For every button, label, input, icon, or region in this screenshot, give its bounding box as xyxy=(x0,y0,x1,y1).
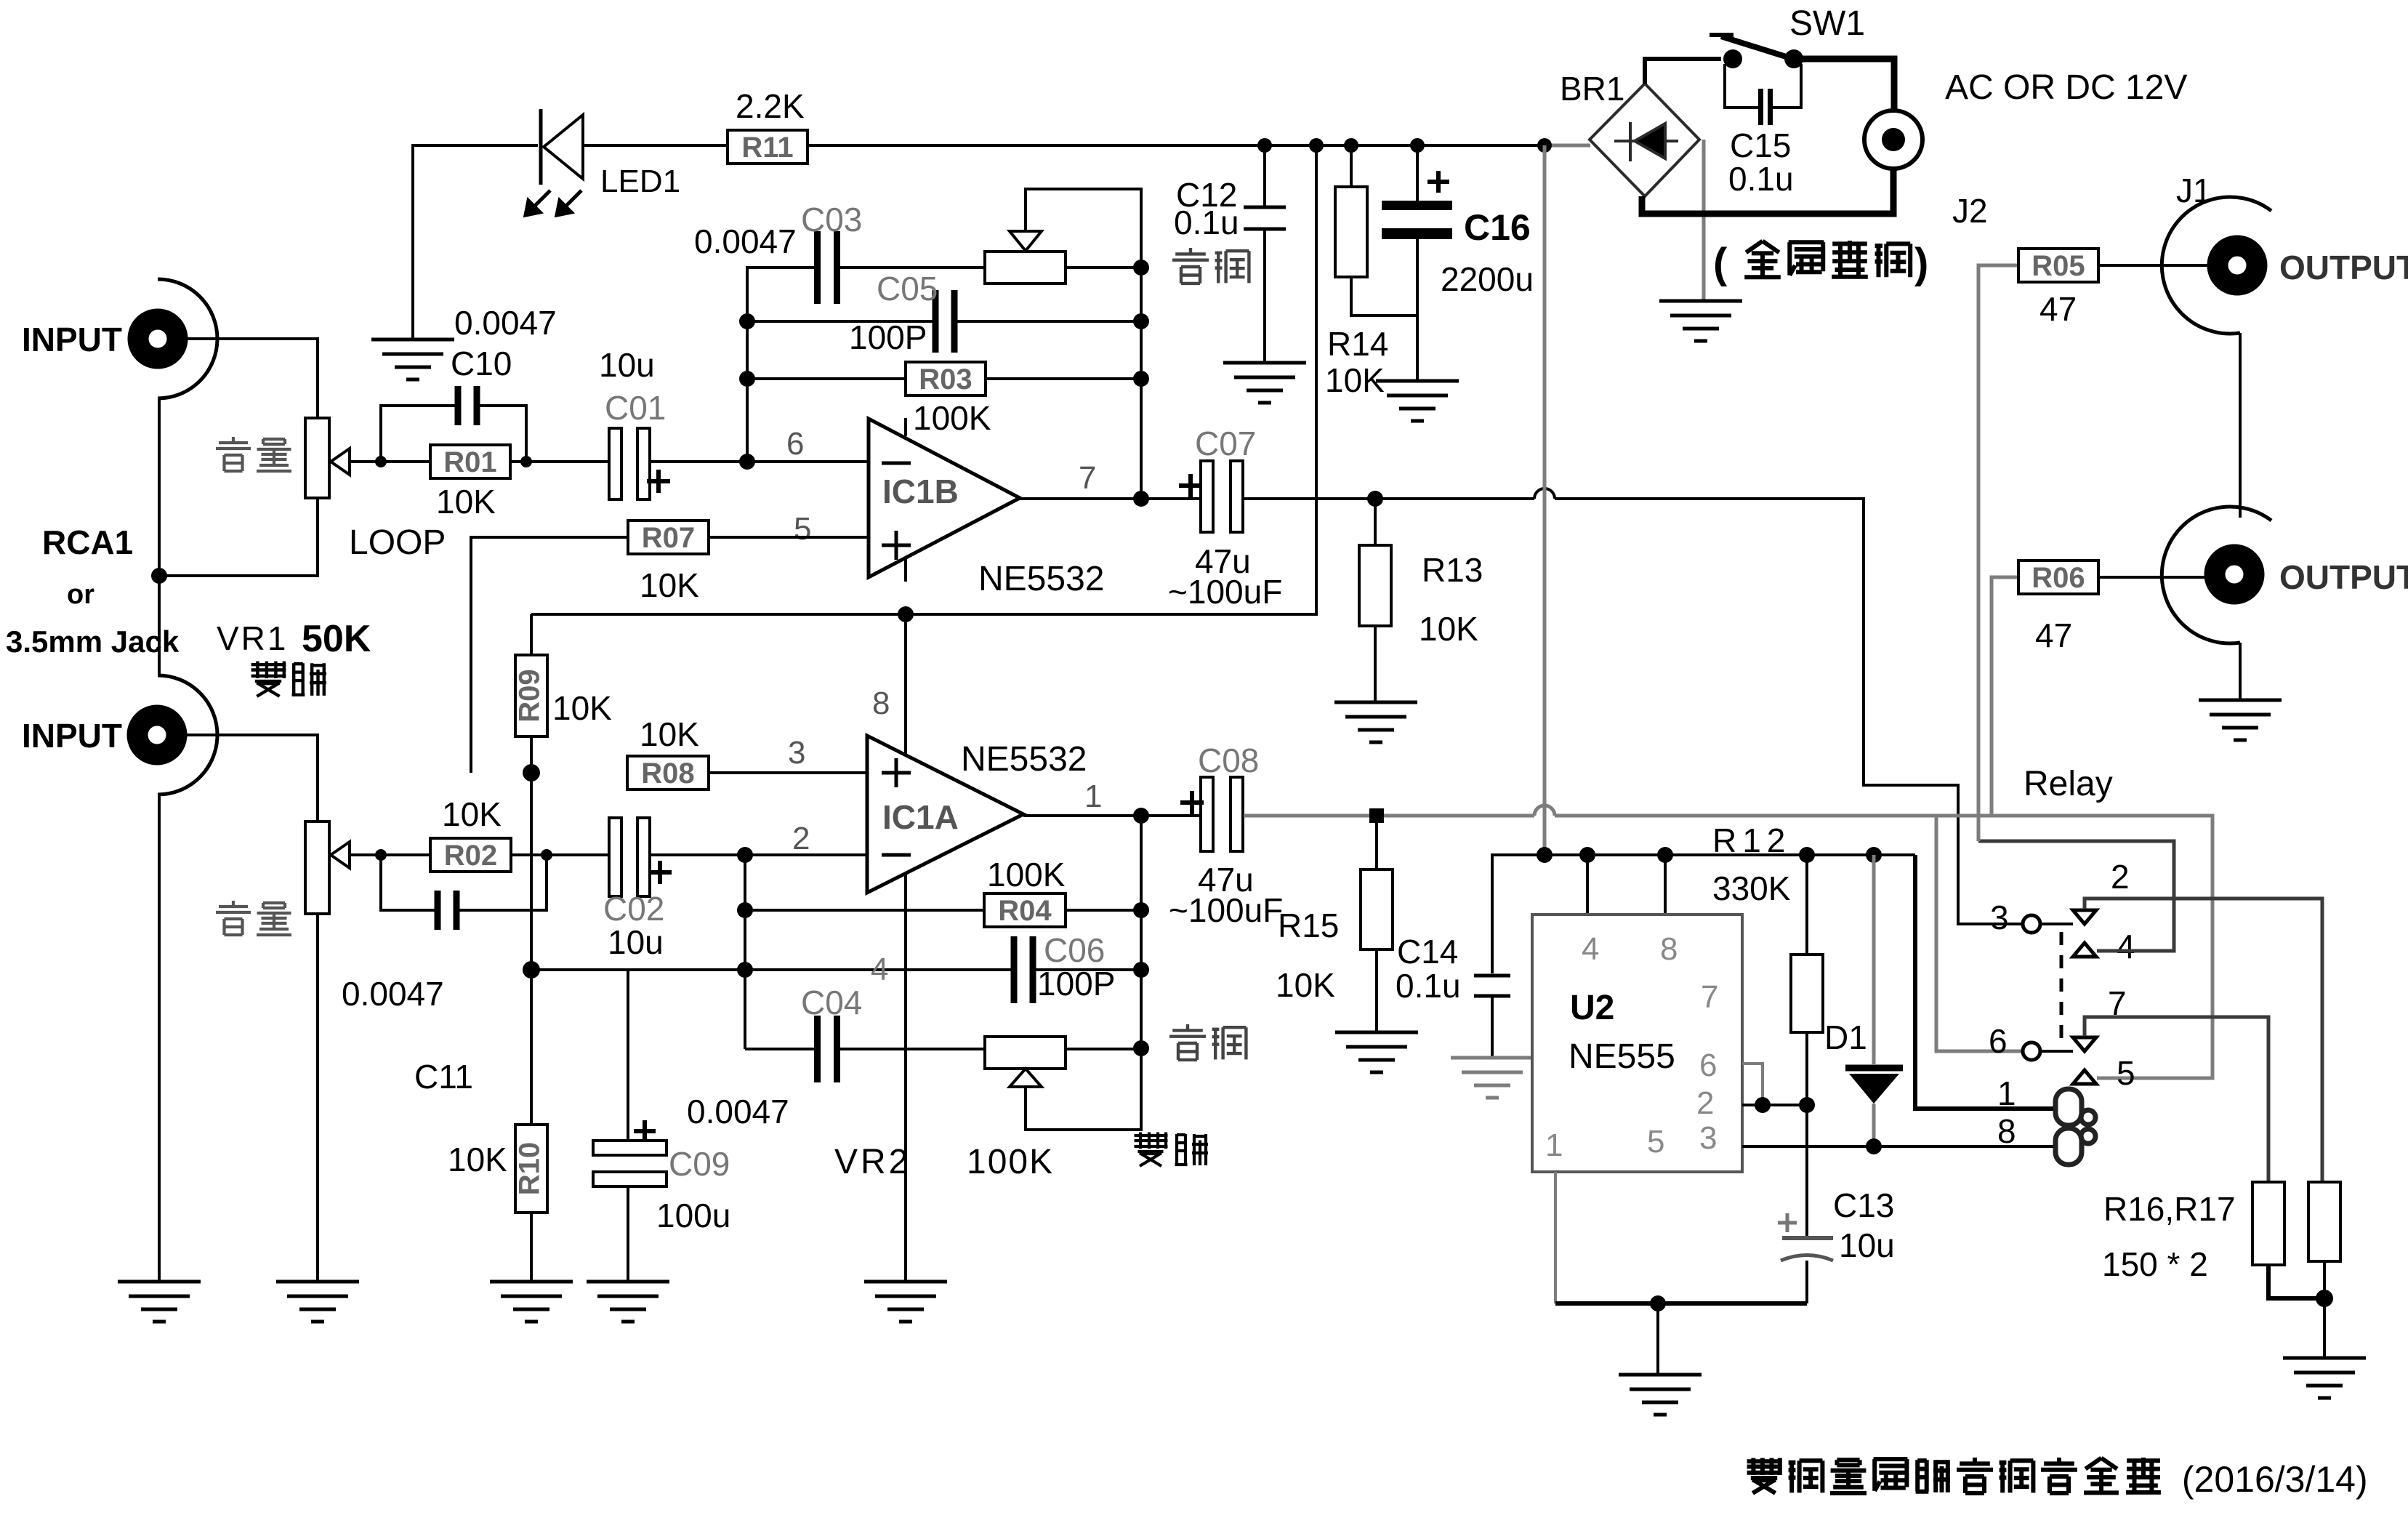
svg-text:C03: C03 xyxy=(801,201,862,238)
wire R04 line left xyxy=(745,909,984,912)
node tone pot right xyxy=(1133,260,1149,276)
node D1 anode xyxy=(1866,1138,1882,1154)
svg-text:R13: R13 xyxy=(1422,551,1483,589)
wire SW1 to J2 xyxy=(1794,59,1894,110)
wire BR1 right to ground xyxy=(1702,140,1706,301)
node pin2 feedback xyxy=(737,847,753,863)
wire R06 to J1b xyxy=(2098,576,2212,579)
node R03 left xyxy=(739,371,755,387)
wire C07 to relay contact 3 xyxy=(1244,497,1534,500)
svg-text:2200u: 2200u xyxy=(1441,260,1534,298)
wire pin8 stem xyxy=(1664,855,1667,915)
capacitor C10 bypass loop xyxy=(381,406,455,462)
svg-text:R11: R11 xyxy=(741,132,793,164)
svg-text:150 * 2: 150 * 2 xyxy=(2102,1245,2208,1283)
svg-text:1: 1 xyxy=(1545,1128,1563,1163)
wire R05 feed xyxy=(1978,265,2018,841)
wire output shield link xyxy=(2239,333,2242,518)
ground C14 xyxy=(1451,1058,1534,1098)
svg-text:10K: 10K xyxy=(436,483,496,521)
resistor R14 xyxy=(1335,187,1367,277)
node pin1 junction xyxy=(1133,808,1149,824)
ground NE555 xyxy=(1619,1375,1702,1415)
svg-text:J2: J2 xyxy=(1952,192,1988,230)
svg-text:5: 5 xyxy=(794,511,811,547)
node R15 tap xyxy=(1369,808,1384,823)
svg-text:LED1: LED1 xyxy=(600,164,680,199)
svg-text:0.1u: 0.1u xyxy=(1174,204,1239,241)
wire feedback bus right (top) xyxy=(1140,268,1143,499)
wire IC1A output xyxy=(1023,814,1201,817)
wire R03 line right xyxy=(986,377,1141,380)
wire output shield to ground xyxy=(2239,643,2242,700)
svg-text:10u: 10u xyxy=(1839,1226,1895,1264)
node NE555 ground xyxy=(1650,1295,1666,1311)
node VR2 right xyxy=(1133,1040,1149,1056)
svg-text:or: or xyxy=(67,579,94,610)
node rail C16 xyxy=(1410,138,1425,153)
node R04 right xyxy=(1133,902,1149,918)
connector J2 power jack xyxy=(1864,110,1922,169)
capacitor C09 xyxy=(627,970,629,1141)
relay contact 3 xyxy=(2023,915,2040,933)
svg-text:0.0047: 0.0047 xyxy=(342,975,444,1013)
wire jack1 tip to VR1 top xyxy=(178,339,318,418)
svg-text:C08: C08 xyxy=(1198,742,1259,779)
connector J1 OUTPUT top xyxy=(2162,197,2271,334)
svg-text:VR1: VR1 xyxy=(217,619,288,657)
resistor R12 xyxy=(1791,955,1823,1032)
svg-text:~100uF: ~100uF xyxy=(1169,891,1283,929)
svg-text:10u: 10u xyxy=(608,923,664,961)
LED1 arrows xyxy=(526,190,581,215)
svg-text:0.0047: 0.0047 xyxy=(454,304,557,342)
svg-text:3: 3 xyxy=(1990,899,2009,936)
RCA jack INPUT (top) xyxy=(158,279,217,398)
svg-text:47: 47 xyxy=(2035,616,2072,654)
resistor R07 line xyxy=(471,537,628,773)
potentiometer VR1 bottom section (volume) xyxy=(305,821,329,914)
svg-text:C15: C15 xyxy=(1730,126,1791,164)
svg-text:R03: R03 xyxy=(919,363,972,395)
capacitor C07 xyxy=(1179,461,1243,532)
ground R15 xyxy=(1335,1032,1418,1072)
wire LED to R11 xyxy=(583,144,728,147)
potentiometer VR tone (top) xyxy=(985,252,1066,284)
ground IC1A pin4 xyxy=(864,1282,947,1322)
resistor R03 xyxy=(906,362,986,395)
label footer site name xyxy=(1747,1458,1782,1493)
svg-text:6: 6 xyxy=(1989,1022,2008,1060)
svg-text:C10: C10 xyxy=(451,345,512,382)
node RCA1 junction xyxy=(151,568,167,584)
node C05 right xyxy=(1133,313,1149,329)
ground R10 xyxy=(490,1282,573,1322)
svg-text:10K: 10K xyxy=(552,689,612,727)
wire supply to relay coil pin1 xyxy=(1915,855,2054,1109)
node R16/R17 xyxy=(2316,1290,2333,1307)
resistor R06 xyxy=(2018,560,2098,594)
svg-text:R16,R17: R16,R17 xyxy=(2103,1190,2236,1228)
LED LED1 xyxy=(541,109,583,185)
svg-text:100P: 100P xyxy=(849,318,927,356)
node supply R12 xyxy=(1799,847,1815,863)
svg-text:0.0047: 0.0047 xyxy=(694,222,797,260)
capacitor C04 xyxy=(814,1016,840,1082)
svg-text:4: 4 xyxy=(2117,928,2135,965)
svg-text:47: 47 xyxy=(2039,290,2077,328)
relay wiper 2 (top group) xyxy=(2073,910,2096,924)
svg-text:IC1A: IC1A xyxy=(882,798,959,836)
svg-text:1: 1 xyxy=(1997,1074,2016,1112)
svg-text:RCA1: RCA1 xyxy=(42,523,133,561)
wire VR1 top wiper xyxy=(350,460,407,463)
wire VR1 bottom to ground xyxy=(316,914,319,1282)
svg-text:R14: R14 xyxy=(1327,325,1388,363)
ground input shield xyxy=(118,1282,201,1322)
svg-text:SW1: SW1 xyxy=(1789,4,1865,43)
capacitor C11 xyxy=(435,891,460,930)
wire shield bus left xyxy=(158,398,161,675)
mechanical link dashed xyxy=(2060,932,2063,1047)
node VR1b wiper - R02 xyxy=(375,849,387,861)
svg-text:C07: C07 xyxy=(1195,425,1256,462)
svg-text:5: 5 xyxy=(2117,1054,2135,1092)
wire R04 line right xyxy=(1066,909,1141,912)
wire pin4 stem to ground xyxy=(904,873,907,1282)
svg-text:2.2K: 2.2K xyxy=(736,87,805,125)
capacitor C14 xyxy=(1492,855,1545,973)
switch SW1 xyxy=(1710,35,1795,60)
svg-text:D1: D1 xyxy=(1824,1018,1867,1056)
label volume (top) 音量 xyxy=(216,437,251,471)
node rail V+ branch xyxy=(1309,138,1324,153)
svg-text:VR2: VR2 xyxy=(834,1143,911,1181)
svg-text:330K: 330K xyxy=(1712,869,1791,907)
resistor R13 xyxy=(1359,545,1391,626)
wire C12 stem xyxy=(1263,145,1266,206)
capacitor C10 xyxy=(455,386,480,425)
wire VR2 right terminal xyxy=(1066,1048,1141,1050)
svg-text:R10: R10 xyxy=(514,1142,546,1195)
svg-text:50K: 50K xyxy=(302,618,371,660)
RCA jack INPUT (bottom) xyxy=(158,675,217,795)
wire R05 to J1 xyxy=(2098,264,2215,267)
svg-text:C06: C06 xyxy=(1044,931,1105,969)
svg-text:R05: R05 xyxy=(2032,250,2085,282)
wire C08 branch to relay wiper 6 xyxy=(1936,816,2024,1051)
wire C05 line right xyxy=(954,320,1141,323)
svg-text:0.0047: 0.0047 xyxy=(687,1093,789,1130)
svg-text:100K: 100K xyxy=(987,856,1066,893)
wire tone pot top wiper loop xyxy=(1026,189,1141,268)
ground outputs xyxy=(2199,700,2282,740)
bridge rectifier BR1 xyxy=(1590,84,1699,196)
wire bias to C09/C06 xyxy=(531,968,1015,971)
wire V+ to bias xyxy=(531,145,1316,614)
svg-text:OUTPUT: OUTPUT xyxy=(2279,249,2408,286)
svg-text:4: 4 xyxy=(871,952,888,987)
node pin8 stem xyxy=(898,606,914,622)
ground C16 xyxy=(1376,381,1459,421)
wire LED branch from ground xyxy=(413,145,538,338)
wire VR2 wiper loop xyxy=(1026,1048,1141,1130)
svg-text:0.1u: 0.1u xyxy=(1728,160,1794,198)
svg-text:7: 7 xyxy=(2108,984,2127,1022)
svg-text:8: 8 xyxy=(872,686,890,721)
resistor R02 xyxy=(430,838,511,872)
svg-text:NE5532: NE5532 xyxy=(978,560,1104,598)
svg-text:2: 2 xyxy=(2111,858,2130,896)
svg-text:10K: 10K xyxy=(1419,610,1478,648)
wire BR1 bottom to J2 sleeve xyxy=(1642,169,1893,214)
capacitor C06 xyxy=(1011,936,1036,1003)
svg-text:R12: R12 xyxy=(1712,821,1791,859)
ground C12 xyxy=(1223,363,1306,403)
label volume (bottom) 音量 xyxy=(216,901,251,935)
wire R17 bottom xyxy=(2323,1261,2326,1358)
resistor R17 xyxy=(2308,1182,2340,1261)
capacitor C01 xyxy=(609,428,670,499)
capacitor C11 bypass loop xyxy=(381,855,436,910)
capacitor C14 xyxy=(1474,976,1510,996)
svg-text:R07: R07 xyxy=(642,522,695,554)
wire C03 to tone pot xyxy=(837,266,985,269)
node supply pin8 xyxy=(1657,847,1673,863)
node C06 left xyxy=(737,962,753,978)
label VR2 dual-gang 雙聯 xyxy=(1135,1133,1168,1167)
resistor R08 xyxy=(627,756,709,789)
svg-text:10K: 10K xyxy=(1325,361,1385,399)
wire C05 line left xyxy=(747,320,936,323)
svg-text:NE5532: NE5532 xyxy=(961,740,1087,779)
wire contact4 to R05 xyxy=(1978,841,2174,951)
svg-text:C16: C16 xyxy=(1464,207,1531,248)
ground R16/R17 xyxy=(2283,1358,2366,1398)
wire R07 to IC1B + xyxy=(709,536,869,539)
resistor R09 xyxy=(514,655,547,736)
potentiometer VR1 top section (volume) xyxy=(305,418,329,498)
wire feedback bus left (top) xyxy=(747,268,817,462)
wire RCA1 node to VR1 bottom xyxy=(159,498,318,576)
svg-text:R02: R02 xyxy=(444,840,497,872)
node pin7 junction xyxy=(1133,491,1149,507)
svg-text:C04: C04 xyxy=(801,984,862,1021)
svg-text:8: 8 xyxy=(1660,931,1678,967)
svg-text:3: 3 xyxy=(1699,1120,1717,1156)
svg-text:J1: J1 xyxy=(2176,172,2212,209)
svg-text:10K: 10K xyxy=(640,566,699,604)
node C06 right xyxy=(1133,962,1149,978)
wire NE555 pin1 to ground line xyxy=(1554,1172,1557,1303)
node pin6 feedback xyxy=(739,454,755,470)
node rail R14 xyxy=(1344,138,1358,153)
svg-text:C05: C05 xyxy=(877,270,938,308)
svg-text:BR1: BR1 xyxy=(1560,70,1624,108)
svg-text:(: ( xyxy=(1713,240,1728,287)
svg-text:10K: 10K xyxy=(640,715,699,753)
resistor R01 xyxy=(430,445,510,478)
wire +12V rail xyxy=(808,144,1545,147)
ground VR1 bottom xyxy=(276,1282,359,1322)
svg-text:Relay: Relay xyxy=(2024,765,2113,803)
label tone 音调 (bottom) xyxy=(1169,1024,1206,1060)
svg-text:C11: C11 xyxy=(414,1058,473,1096)
wire R08 to IC1A + xyxy=(709,771,867,774)
svg-text:INPUT: INPUT xyxy=(22,717,122,755)
wire feedback bus left (bottom) xyxy=(744,855,746,1049)
ground BR1 minus xyxy=(1659,301,1742,341)
resistor R11 xyxy=(728,130,808,164)
node rail C12 xyxy=(1257,138,1272,153)
capacitor C13 xyxy=(1805,1105,1808,1236)
wire C01 to IC1B inverting input xyxy=(650,460,869,463)
wire C02 to IC1A inverting input xyxy=(650,853,867,856)
svg-text:R09: R09 xyxy=(514,669,546,722)
node R01 right xyxy=(520,456,532,467)
svg-text:AC OR DC 12V: AC OR DC 12V xyxy=(1945,68,2187,107)
wire pin3 output line xyxy=(1742,1145,2054,1148)
node C05 left xyxy=(739,313,755,329)
connector J1 OUTPUT bottom xyxy=(2162,507,2271,643)
capacitor C03 xyxy=(814,231,840,304)
wire IC1B output xyxy=(1020,497,1200,500)
svg-text:R08: R08 xyxy=(641,758,694,789)
capacitor C16 xyxy=(1382,201,1452,239)
wire jack2 tip to VR1 bottom section xyxy=(177,735,318,821)
svg-text:C09: C09 xyxy=(669,1145,730,1183)
capacitor C02 xyxy=(609,818,672,896)
wire R03 line left xyxy=(747,377,906,380)
svg-text:NE555: NE555 xyxy=(1569,1037,1675,1076)
node supply pin4 xyxy=(1579,847,1595,863)
wire contact5 to R06 xyxy=(1992,577,2018,816)
op-amp IC1B xyxy=(869,419,1020,577)
svg-text:6: 6 xyxy=(786,426,804,462)
capacitor C06 line xyxy=(745,968,1015,971)
svg-text:IC1B: IC1B xyxy=(882,473,959,510)
wire C16 stem xyxy=(1416,145,1419,201)
node R03 right xyxy=(1133,371,1149,387)
resistor R16 xyxy=(2252,1182,2284,1265)
capacitor C05 xyxy=(933,290,958,353)
ground C09 xyxy=(587,1282,669,1322)
svg-text:OUTPUT: OUTPUT xyxy=(2279,558,2408,596)
wire C08 to relay contact 6 xyxy=(1244,814,1534,818)
potentiometer VR2 tone (bottom) xyxy=(985,1037,1066,1069)
node bias R10/C09 xyxy=(523,961,540,979)
node VR1 wiper - R01 xyxy=(375,456,387,467)
svg-text:LOOP: LOOP xyxy=(349,523,446,562)
node R12/C13 xyxy=(1799,1097,1815,1113)
node R04 left xyxy=(737,902,753,918)
node pin2/6 xyxy=(1755,1097,1771,1113)
svg-text:6: 6 xyxy=(1699,1048,1717,1083)
svg-text:10K: 10K xyxy=(448,1141,507,1178)
svg-text:7: 7 xyxy=(1079,460,1096,496)
resistor R15 xyxy=(1361,869,1393,949)
capacitor C04 line xyxy=(745,1048,817,1050)
svg-text:1: 1 xyxy=(1084,779,1102,814)
wire feedback bus right (bottom) xyxy=(1140,816,1143,1048)
resistor R05 xyxy=(2018,249,2098,282)
svg-text:C14: C14 xyxy=(1397,933,1458,971)
svg-text:~100uF: ~100uF xyxy=(1168,573,1282,611)
node supply D1 xyxy=(1866,847,1882,863)
capacitor C15 xyxy=(1725,64,1759,108)
svg-text:100u: 100u xyxy=(656,1197,730,1234)
node bias R07/R08 xyxy=(523,764,540,781)
svg-text:100K: 100K xyxy=(913,399,991,437)
svg-text:(2016/3/14): (2016/3/14) xyxy=(2172,1459,2368,1500)
svg-text:R06: R06 xyxy=(2032,562,2085,594)
svg-text:C01: C01 xyxy=(605,389,666,427)
svg-text:): ) xyxy=(1914,240,1928,287)
op-amp IC1A xyxy=(867,736,1023,893)
capacitor C08 xyxy=(1180,777,1243,851)
svg-text:U2: U2 xyxy=(1570,989,1614,1027)
resistor R12 xyxy=(1805,855,1808,955)
wire pin8 stem xyxy=(904,614,907,755)
svg-text:3.5mm Jack: 3.5mm Jack xyxy=(6,624,180,659)
svg-text:C02: C02 xyxy=(603,890,664,928)
relay wiper 7 (bottom group) xyxy=(2073,1037,2096,1051)
svg-text:R15: R15 xyxy=(1278,907,1339,944)
svg-text:R04: R04 xyxy=(998,895,1052,927)
wire VR1 bottom wiper xyxy=(350,853,407,856)
svg-text:5: 5 xyxy=(1647,1124,1664,1160)
svg-text:INPUT: INPUT xyxy=(22,321,122,358)
wire pin2/pin6 tie xyxy=(1742,1104,1807,1106)
ground LED branch xyxy=(371,339,454,379)
wire NE555 supply branch (gray vertical) xyxy=(1543,145,1547,855)
svg-text:0.1u: 0.1u xyxy=(1396,967,1461,1005)
label tone 音调 (top) xyxy=(1172,248,1209,284)
relay contact 4 xyxy=(2073,943,2096,957)
resistor R04 xyxy=(984,893,1066,927)
wire NE555 supply line xyxy=(1492,853,1915,856)
wire R14 stem xyxy=(1350,145,1353,187)
node supply gray xyxy=(1537,847,1553,863)
svg-text:2: 2 xyxy=(1696,1085,1714,1121)
wire R16 bottom xyxy=(2268,1265,2324,1298)
wire pin4 stem xyxy=(1586,855,1589,915)
node rail NE555 branch xyxy=(1537,138,1552,153)
relay contact 5 xyxy=(2073,1070,2096,1084)
svg-text:10K: 10K xyxy=(442,795,502,833)
wire tone pot right terminal xyxy=(1066,266,1141,269)
capacitor C12 xyxy=(1244,207,1286,229)
svg-text:8: 8 xyxy=(1997,1112,2016,1150)
wire BR1 top to SW1 xyxy=(1645,59,1721,84)
resistor R10 xyxy=(514,1125,547,1213)
svg-text:4: 4 xyxy=(1582,931,1599,967)
label VR1 dual-gang 雙聯 xyxy=(251,662,286,696)
node C11 right xyxy=(541,849,552,861)
node R13 tap xyxy=(1367,491,1383,507)
svg-text:3: 3 xyxy=(788,735,805,771)
svg-text:2: 2 xyxy=(792,821,810,856)
IC U2 NE555 xyxy=(1532,915,1742,1172)
relay contact 6 xyxy=(2023,1042,2040,1060)
resistor R07 xyxy=(628,521,709,554)
relay coil xyxy=(2055,1089,2095,1165)
svg-text:100K: 100K xyxy=(967,1143,1054,1181)
ground R13 xyxy=(1334,702,1417,742)
diode D1 xyxy=(1872,855,1876,1064)
svg-text:C13: C13 xyxy=(1833,1186,1894,1224)
svg-text:7: 7 xyxy=(1701,979,1718,1015)
